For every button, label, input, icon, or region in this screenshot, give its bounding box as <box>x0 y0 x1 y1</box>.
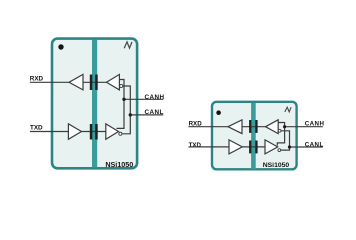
svg-text:CANH: CANH <box>305 121 325 128</box>
svg-text:NSi1050: NSi1050 <box>105 160 133 169</box>
svg-text:CANL: CANL <box>305 142 324 149</box>
svg-text:TXD: TXD <box>189 142 202 149</box>
svg-text:NSi1050: NSi1050 <box>263 162 290 169</box>
svg-text:TXD: TXD <box>30 125 43 132</box>
svg-text:CANL: CANL <box>145 109 164 116</box>
svg-text:CANH: CANH <box>145 94 165 101</box>
svg-text:RXD: RXD <box>30 76 44 83</box>
